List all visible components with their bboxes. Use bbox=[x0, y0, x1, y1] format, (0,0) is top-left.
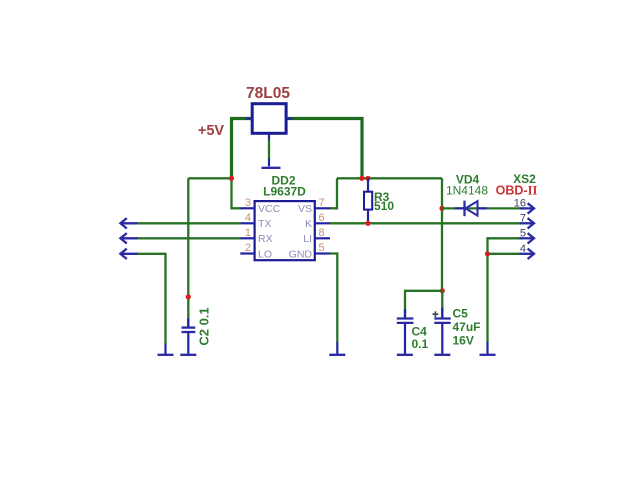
svg-text:VCC: VCC bbox=[258, 203, 281, 215]
arrow OBD pin16 bbox=[520, 203, 535, 213]
ground LO bbox=[158, 344, 174, 355]
svg-text:78L05: 78L05 bbox=[246, 85, 290, 102]
svg-text:8: 8 bbox=[319, 227, 325, 239]
wire +5V rail to C2 branch bbox=[188, 177, 231, 179]
ground XS2 bbox=[480, 342, 496, 355]
arrow TX left bbox=[120, 218, 137, 228]
node pin4 junction bbox=[485, 251, 490, 256]
regulator U1 78L05 bbox=[246, 104, 293, 141]
wire K line rail bbox=[330, 222, 521, 224]
svg-text:VS: VS bbox=[298, 203, 312, 215]
wire diode line pin16 bbox=[442, 207, 521, 209]
svg-text:5: 5 bbox=[319, 242, 325, 254]
svg-text:7: 7 bbox=[319, 197, 325, 209]
svg-text:16V: 16V bbox=[453, 333, 474, 347]
wire regulator output left bbox=[232, 119, 253, 179]
svg-text:C5: C5 bbox=[453, 306, 469, 320]
node R3 bottom junction bbox=[365, 221, 370, 226]
svg-text:16: 16 bbox=[514, 198, 526, 210]
wire RX line bbox=[135, 237, 241, 239]
ground C2 bbox=[180, 354, 196, 356]
svg-text:RX: RX bbox=[258, 233, 273, 245]
pin 6 stub K bbox=[315, 222, 330, 224]
wire 12V vertical drop bbox=[441, 178, 443, 290]
wire 12V rail bbox=[337, 177, 442, 179]
pin 3 stub VCC bbox=[240, 207, 254, 209]
wire pin5 line bbox=[488, 238, 522, 342]
svg-text:GND: GND bbox=[289, 249, 313, 261]
arrow LO left bbox=[120, 249, 137, 259]
node VD4 junction bbox=[439, 206, 444, 211]
pin 2 stub LO bbox=[240, 252, 254, 254]
ground regulator bbox=[262, 159, 281, 168]
svg-text:LO: LO bbox=[258, 249, 272, 261]
ground DD2 bbox=[329, 342, 345, 355]
node C4 C5 junction bbox=[440, 288, 445, 293]
svg-text:47uF: 47uF bbox=[453, 320, 481, 334]
svg-text:1N4148: 1N4148 bbox=[446, 183, 488, 197]
pin 4 stub TX bbox=[240, 222, 254, 224]
arrow RX left bbox=[120, 233, 137, 243]
resistor R3 bbox=[364, 178, 372, 223]
arrow OBD pin5 bbox=[520, 233, 535, 243]
pin 1 stub RX bbox=[240, 237, 254, 239]
svg-text:6: 6 bbox=[319, 212, 325, 224]
svg-text:510: 510 bbox=[374, 199, 394, 213]
svg-text:C2 0.1: C2 0.1 bbox=[197, 307, 212, 345]
IC DD2 L9637D bbox=[255, 201, 315, 260]
wire regulator ground bbox=[268, 140, 270, 160]
svg-text:L9637D: L9637D bbox=[263, 185, 306, 199]
wire GND pin drop bbox=[330, 254, 337, 343]
capacitor C4 bbox=[397, 309, 414, 354]
wire LO line bbox=[135, 254, 166, 344]
svg-text:OBD-II: OBD-II bbox=[496, 184, 538, 198]
svg-text:7: 7 bbox=[520, 213, 526, 225]
svg-text:K: K bbox=[305, 218, 312, 230]
wire regulator input right bbox=[286, 119, 362, 179]
ground C4 bbox=[397, 354, 413, 356]
wire pin4 line bbox=[488, 253, 522, 255]
svg-text:TX: TX bbox=[258, 218, 271, 230]
pin 5 stub GND bbox=[315, 252, 330, 254]
svg-text:2: 2 bbox=[245, 242, 251, 254]
svg-text:3: 3 bbox=[245, 197, 251, 209]
node R3 top junction bbox=[365, 176, 370, 181]
capacitor C2 bbox=[182, 318, 196, 354]
wire TX line bbox=[135, 222, 241, 224]
svg-text:0.1: 0.1 bbox=[412, 337, 429, 351]
wire C4 branch bbox=[405, 291, 442, 318]
arrow OBD pin4 bbox=[520, 249, 535, 259]
wire VCC drop bbox=[232, 178, 241, 208]
ground C5 bbox=[434, 354, 450, 356]
diode VD4 bbox=[455, 201, 487, 217]
svg-text:+5V: +5V bbox=[198, 123, 225, 139]
capacitor C5 plus sign bbox=[433, 311, 439, 317]
pin 8 stub LI bbox=[315, 237, 330, 239]
wire VS drop bbox=[330, 178, 337, 208]
wire C5 drop bbox=[441, 291, 443, 318]
svg-text:LI: LI bbox=[303, 233, 312, 245]
svg-text:4: 4 bbox=[245, 212, 251, 224]
svg-text:1: 1 bbox=[245, 227, 251, 239]
svg-text:5: 5 bbox=[520, 228, 526, 240]
pin 7 stub VS bbox=[315, 207, 330, 209]
wire C2 vertical bbox=[187, 178, 189, 327]
arrow OBD pin7 bbox=[520, 218, 535, 228]
svg-text:4: 4 bbox=[520, 243, 526, 255]
node regulator input junction bbox=[359, 176, 364, 181]
node C2 junction bbox=[186, 294, 191, 299]
node +5V junction bbox=[229, 176, 234, 181]
capacitor C5 bbox=[434, 308, 450, 355]
